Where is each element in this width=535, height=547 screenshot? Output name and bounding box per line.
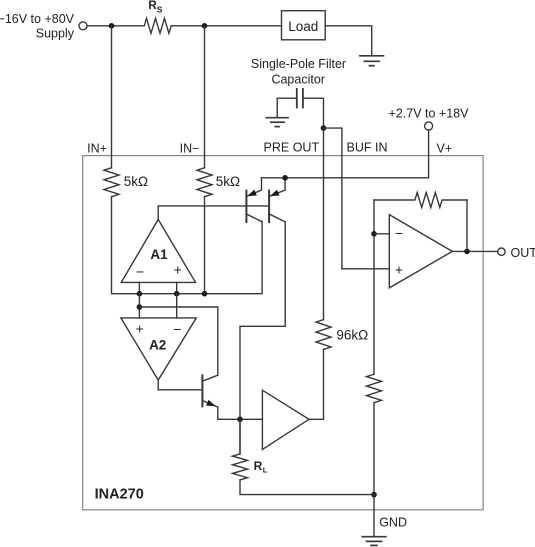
wire A2 output to Q3 base (158, 380, 202, 390)
node IN+ top junction (109, 23, 115, 29)
wire row2 to Q3 collector (139, 307, 217, 375)
wire RS to load (171, 25, 281, 27)
load box (282, 11, 326, 40)
wire BUF IN to plus input (342, 268, 389, 270)
collector Q2 (269, 214, 285, 222)
wire RL top (239, 419, 241, 454)
svg-text:+2.7V to +18V: +2.7V to +18V (389, 106, 470, 120)
resistor RL (233, 454, 248, 480)
svg-text:OUT: OUT (511, 246, 535, 260)
wire V+ drop (428, 130, 430, 178)
wire IN+ to row1 (112, 197, 263, 294)
svg-text:5kΩ: 5kΩ (124, 174, 148, 189)
wire A1 minus stub (138, 282, 140, 293)
op-amp U3 (389, 215, 452, 288)
wire cap left to ground (277, 98, 297, 117)
wire A1 output stub to bases (158, 206, 269, 220)
svg-text:−: − (136, 263, 144, 279)
svg-text:GND: GND (379, 516, 407, 530)
OUT terminal (498, 248, 505, 255)
emitter Q3 (202, 401, 217, 408)
svg-text:+: + (174, 262, 182, 278)
ground load (360, 56, 384, 66)
svg-text:−16V to +80V: −16V to +80V (0, 12, 75, 26)
wire feedback right drop (466, 200, 468, 251)
node minus input (371, 231, 377, 237)
wire Q2 collector down jog (240, 222, 285, 454)
resistor RS (144, 18, 171, 33)
wire A2 minus stub (176, 294, 178, 318)
resistor 96k (316, 320, 331, 350)
wire load to ground (325, 26, 372, 56)
resistor 5k right (197, 168, 212, 197)
op-amp A2 (121, 318, 196, 380)
op-amp A1 (121, 219, 195, 282)
V+ terminal (425, 122, 433, 130)
svg-text:V+: V+ (437, 141, 453, 155)
node cap junction (321, 125, 327, 131)
wire buffer out to 96k bottom (309, 350, 324, 420)
resistor 5k left (104, 168, 119, 197)
wire cap right to PRE OUT node (303, 98, 324, 128)
wire R2 to gnd (373, 403, 375, 537)
svg-text:A2: A2 (149, 337, 166, 352)
svg-text:Single-Pole Filter: Single-Pole Filter (251, 57, 346, 71)
collector Q1 (246, 214, 262, 222)
svg-text:S: S (157, 5, 163, 15)
resistor feedback R1 (374, 193, 467, 208)
INA270 package box (83, 156, 483, 510)
transistor Q2 (268, 191, 270, 223)
svg-text:R: R (254, 459, 263, 473)
svg-text:+: + (395, 261, 403, 277)
node output (464, 249, 470, 255)
svg-text:L: L (263, 466, 268, 475)
wire RL bottom to gnd node (240, 480, 374, 495)
transistor Q1 (245, 191, 247, 223)
wire BUF IN jog (324, 128, 342, 269)
svg-text:A1: A1 (150, 247, 168, 262)
wire feedback column (373, 200, 375, 374)
wire IN+ column (111, 26, 113, 168)
svg-text:PRE OUT: PRE OUT (264, 140, 320, 154)
wire IN- to row1 (204, 197, 206, 294)
wire minus input (374, 233, 389, 235)
svg-text:IN+: IN+ (87, 141, 107, 155)
node IN- top junction (202, 23, 208, 29)
ground cap (266, 118, 288, 127)
node row1 A1 minus (137, 291, 143, 297)
wire PRE OUT column (323, 128, 325, 320)
svg-text:+: + (136, 320, 144, 336)
node gnd junction (371, 492, 377, 498)
node row1 IN- (202, 291, 208, 297)
wire top supply (87, 25, 144, 27)
node emitter row (237, 417, 243, 423)
svg-text:−: − (395, 225, 403, 241)
wire emitter rail to V+ (262, 177, 429, 179)
wire A2 cross stubs (138, 294, 140, 318)
node emitter rail (282, 175, 288, 181)
wire A1 plus stub (176, 282, 178, 293)
svg-text:BUF IN: BUF IN (347, 140, 388, 154)
svg-text:Capacitor: Capacitor (271, 72, 325, 86)
svg-text:5kΩ: 5kΩ (216, 174, 240, 189)
svg-text:Supply: Supply (36, 26, 75, 40)
emitter Q2 (269, 178, 285, 197)
emitter Q1 (246, 178, 261, 197)
svg-text:−: − (173, 321, 181, 337)
transistor Q3 (201, 375, 203, 406)
supply terminal (79, 22, 87, 30)
resistor R2 gnd (367, 374, 382, 403)
svg-text:IN−: IN− (180, 141, 200, 155)
capacitor C1 (297, 89, 303, 108)
wire output (452, 250, 497, 252)
ground main (362, 537, 386, 546)
collector Q3 (202, 375, 217, 381)
svg-text:Load: Load (288, 19, 318, 34)
wire IN- column (204, 26, 206, 168)
node row2 (137, 304, 143, 310)
node row1 A1 plus (174, 291, 180, 297)
wire Q3 emitter to buffer (218, 408, 263, 420)
buffer U2 (262, 390, 309, 449)
svg-text:96kΩ: 96kΩ (336, 327, 368, 342)
svg-text:INA270: INA270 (95, 487, 144, 503)
